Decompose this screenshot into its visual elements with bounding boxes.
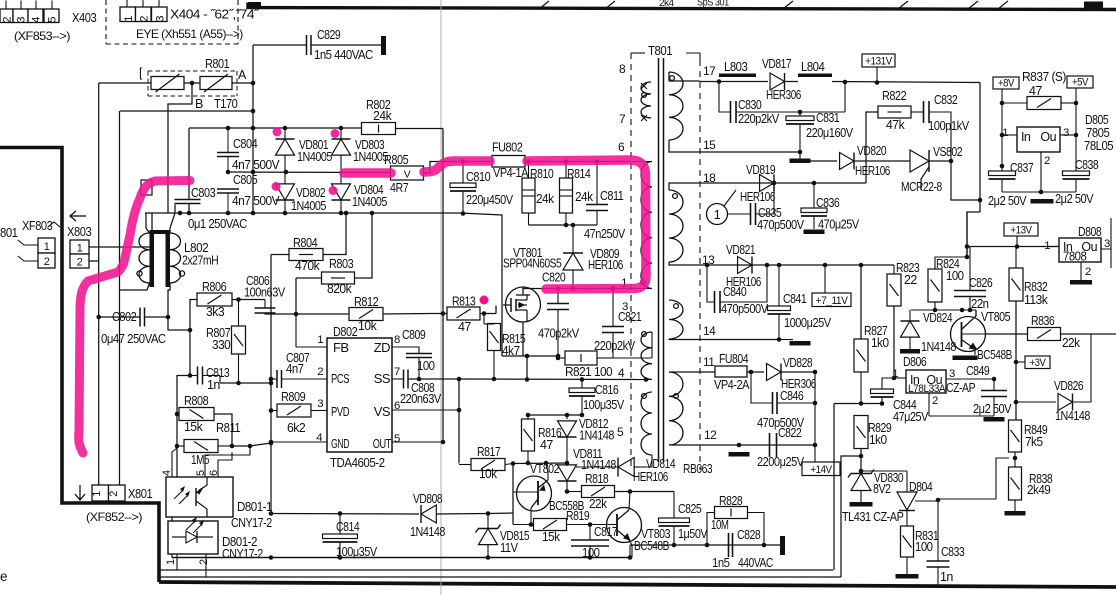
- svg-text:2: 2: [77, 257, 83, 269]
- wire y513 row: [271, 513, 419, 516]
- svg-text:220p2kV: 220p2kV: [738, 112, 780, 126]
- svg-text:6: 6: [618, 140, 625, 154]
- wire opto emitter to bottom rail: [171, 517, 173, 558]
- svg-text:+8V: +8V: [998, 78, 1015, 90]
- svg-text:C832: C832: [934, 93, 958, 107]
- svg-text:1: 1: [714, 208, 721, 222]
- wire emitter rail y463: [513, 462, 567, 465]
- wire bus2 y128: [189, 127, 362, 129]
- svg-text:0μ1 250VAC: 0μ1 250VAC: [188, 217, 247, 231]
- wire y545 row to terminal: [630, 544, 780, 546]
- svg-text:FU804: FU804: [719, 352, 749, 366]
- svg-text:1: 1: [91, 491, 103, 497]
- svg-text:1N4148: 1N4148: [410, 525, 445, 539]
- svg-text:FB: FB: [333, 340, 349, 355]
- svg-text:C841: C841: [783, 292, 807, 306]
- highlighter stroke left input path: [79, 181, 190, 454]
- wire x253 bus1 to bus3: [252, 111, 254, 213]
- svg-text:100: 100: [582, 546, 600, 560]
- terminal bar right of C828: [780, 536, 785, 555]
- diode VD803: [340, 128, 342, 139]
- choke L802 core: [150, 230, 155, 287]
- wire bus1 left corner down to X803 rail: [119, 111, 121, 485]
- svg-text:X404 - ˝62˝,˝74˝: X404 - ˝62˝,˝74˝: [170, 8, 259, 22]
- pink dot R813: [480, 296, 489, 305]
- svg-text:22n: 22n: [971, 297, 989, 311]
- svg-text:470p500V: 470p500V: [757, 218, 805, 232]
- mosfet VT801: [506, 287, 541, 322]
- svg-text:TDA4605-2: TDA4605-2: [330, 455, 385, 470]
- svg-text:A: A: [238, 68, 247, 82]
- diode VD820: [810, 160, 837, 162]
- secondary winding 18-13: [669, 190, 683, 262]
- svg-text:1: 1: [165, 559, 177, 565]
- svg-text:SPP04N60S5: SPP04N60S5: [503, 257, 562, 271]
- svg-text:B: B: [195, 97, 203, 111]
- wire VT802 collector down: [530, 508, 532, 525]
- svg-text:2: 2: [198, 559, 210, 565]
- svg-text:15: 15: [703, 138, 716, 152]
- wire choke left bottom to rail: [120, 283, 150, 290]
- primary winding 8-7: [641, 82, 651, 118]
- capacitor C831: [799, 112, 801, 116]
- wire node A down to bus1: [252, 83, 254, 111]
- svg-text:1N4148: 1N4148: [581, 458, 616, 472]
- svg-text:22k: 22k: [589, 497, 608, 511]
- svg-text:BC548B: BC548B: [977, 348, 1012, 362]
- svg-text:TL431 CZ-AP: TL431 CZ-AP: [842, 510, 904, 524]
- box +13V: [1004, 223, 1038, 236]
- wire regulation node row: [834, 403, 882, 405]
- wire jog to R824 column: [967, 212, 980, 257]
- diode VD819: [760, 175, 774, 192]
- svg-text:7805: 7805: [1086, 126, 1110, 140]
- resistor R849: [1009, 420, 1022, 452]
- svg-text:801: 801: [0, 226, 18, 240]
- svg-text:BC548B: BC548B: [634, 539, 669, 553]
- wire VS pin6: [392, 409, 459, 411]
- svg-text:+7_11V: +7_11V: [816, 295, 849, 307]
- svg-text:8: 8: [619, 62, 626, 76]
- svg-text:HER106: HER106: [740, 190, 775, 204]
- wire PVD pin3: [311, 410, 327, 412]
- svg-text:Ou: Ou: [1040, 130, 1056, 144]
- svg-text:L804: L804: [801, 60, 825, 74]
- ground R831: [896, 574, 919, 579]
- wire +3V node to VD826: [1016, 401, 1056, 403]
- svg-text:CNY17-2: CNY17-2: [222, 547, 263, 561]
- svg-text:R811: R811: [216, 420, 240, 435]
- svg-text:VP4-2A: VP4-2A: [714, 378, 750, 392]
- wire left rail x177 down: [177, 376, 190, 479]
- svg-text:C804: C804: [233, 136, 257, 151]
- wire VT803 collector up: [629, 492, 630, 511]
- svg-text:C816: C816: [595, 383, 619, 397]
- svg-text:1μ50V: 1μ50V: [678, 527, 708, 541]
- wire bus1 AC line y111: [120, 110, 253, 112]
- box +5V: [1067, 76, 1093, 88]
- svg-text:L78L33A: L78L33A: [908, 383, 946, 395]
- svg-text:EYE (Xh551 (A55)-->): EYE (Xh551 (A55)-->): [136, 27, 243, 41]
- svg-text:+5V: +5V: [1072, 77, 1089, 89]
- wire L78L33 in: [894, 377, 906, 379]
- ground D808: [1070, 280, 1092, 285]
- wire source down to y356: [522, 322, 524, 356]
- svg-text:15k: 15k: [184, 419, 203, 434]
- ground VT805: [974, 349, 976, 355]
- top border line: [248, 3, 1116, 10]
- wire left rail down to X801 pin1: [98, 83, 100, 485]
- svg-text:VD817: VD817: [762, 57, 792, 71]
- svg-text:100: 100: [417, 359, 435, 373]
- regulator D806 pin2: [928, 393, 930, 416]
- svg-text:VD821: VD821: [726, 243, 756, 257]
- svg-text:220n63V: 220n63V: [400, 392, 442, 406]
- svg-text:C836: C836: [816, 196, 840, 210]
- svg-text:C820: C820: [542, 271, 566, 285]
- svg-text:2: 2: [932, 395, 938, 407]
- box +14V: [802, 462, 840, 476]
- svg-text:C817: C817: [594, 525, 618, 539]
- wire VT805 base to R836: [962, 333, 987, 335]
- primary winding 6-1: [631, 161, 652, 163]
- wire opto pin1 down to rail570: [176, 554, 178, 570]
- regulator D805 pin2: [1040, 152, 1042, 192]
- svg-text:100: 100: [946, 269, 964, 283]
- svg-text:100n63V: 100n63V: [244, 286, 286, 300]
- svg-text:4: 4: [31, 17, 43, 23]
- wire C829 row: [253, 44, 306, 46]
- svg-text:(XF852-->): (XF852-->): [86, 510, 142, 524]
- svg-text:3: 3: [1063, 127, 1069, 139]
- winding 3-4: [631, 357, 652, 359]
- ground pin12: [729, 452, 750, 457]
- svg-text:2μ2 50V: 2μ2 50V: [1055, 192, 1094, 206]
- resistor R838: [1009, 467, 1022, 500]
- svg-text:2200μ25V: 2200μ25V: [757, 455, 805, 469]
- bottom rail y577: [160, 576, 841, 578]
- svg-text:4: 4: [161, 470, 173, 476]
- secondary winding 17-15: [669, 72, 683, 140]
- svg-text:8V2: 8V2: [873, 482, 891, 496]
- svg-text:100: 100: [915, 540, 933, 554]
- svg-text:3: 3: [155, 16, 167, 22]
- svg-text:HER306: HER306: [766, 88, 801, 102]
- junction dots bus3: [178, 211, 183, 216]
- wire choke left top to bus3: [146, 213, 150, 233]
- svg-text:470p500V: 470p500V: [721, 302, 769, 316]
- box +131V: [862, 54, 895, 67]
- svg-text:VT802: VT802: [530, 462, 560, 476]
- ground VD830: [850, 502, 873, 507]
- wire +131V drop x980: [979, 83, 981, 213]
- capacitor C805: [217, 188, 239, 190]
- wire choke right top to bus3: [170, 205, 175, 234]
- wire pin18 row: [669, 183, 700, 190]
- transformer dashed boundary left: [630, 53, 632, 470]
- wire R822 left down to pin18 row: [866, 112, 878, 183]
- regulator D805 7805: [1017, 127, 1060, 152]
- svg-text:+13V: +13V: [1010, 225, 1032, 237]
- diode VD804: [340, 173, 342, 185]
- svg-text:HER106: HER106: [633, 470, 668, 484]
- wire +13V row: [967, 246, 1062, 248]
- svg-text:e: e: [0, 569, 7, 584]
- svg-text:4k7: 4k7: [502, 344, 520, 358]
- svg-text:R804: R804: [293, 235, 317, 250]
- wire R804 right up to bus3: [323, 213, 346, 255]
- wire +5V rail: [1075, 88, 1077, 171]
- svg-text:VD808: VD808: [413, 492, 443, 506]
- svg-text:VD814: VD814: [646, 457, 676, 471]
- capacitor C822: [769, 433, 771, 457]
- wire D808 out: [1101, 218, 1111, 249]
- connector X404: [120, 7, 136, 22]
- svg-text:C831: C831: [816, 111, 840, 125]
- svg-text:470p2kV: 470p2kV: [538, 327, 580, 341]
- svg-text:R836: R836: [1031, 314, 1055, 328]
- svg-text:D801-1: D801-1: [237, 500, 272, 514]
- capacitor C829: [306, 35, 308, 55]
- svg-text:470μ25V: 470μ25V: [818, 218, 860, 232]
- svg-text:PVD: PVD: [331, 404, 349, 419]
- box +7_11V: [812, 293, 851, 307]
- svg-text:3: 3: [16, 17, 28, 23]
- resistor R831: [901, 526, 914, 557]
- wire choke right bottom to C802 right: [168, 283, 170, 317]
- ground pin14: [779, 339, 793, 341]
- connector X803: [70, 240, 89, 254]
- connector X403: [0, 9, 13, 23]
- wire R806 right: [232, 299, 265, 301]
- svg-text:C805: C805: [233, 172, 257, 187]
- wire bus3 extension to source column: [460, 213, 502, 356]
- terminal bar right of C829: [381, 36, 386, 55]
- svg-text:C840: C840: [723, 285, 747, 299]
- wire R804 left to rail x271: [271, 254, 289, 256]
- posistor R801 dashed outline: [147, 71, 149, 96]
- connector X801: [92, 485, 109, 501]
- wire pin14 to ground: [669, 338, 700, 341]
- secondary winding 14 area: [669, 300, 683, 339]
- svg-text:100p1kV: 100p1kV: [928, 119, 970, 133]
- wire node A up to C829: [252, 45, 254, 83]
- wire B tap down to bus3: [168, 83, 192, 213]
- svg-text:3: 3: [317, 398, 323, 410]
- svg-text:4n7 500V: 4n7 500V: [232, 158, 280, 172]
- svg-text:10k: 10k: [479, 467, 498, 481]
- svg-text:X803: X803: [67, 224, 91, 239]
- wire x459 SS to VS to R817: [458, 379, 460, 464]
- diode VD814: [618, 458, 634, 477]
- wire pin12 row: [669, 444, 685, 446]
- svg-text:2μ2 50V: 2μ2 50V: [973, 402, 1012, 416]
- wire R806 left down: [190, 300, 197, 376]
- svg-text:V: V: [404, 169, 411, 180]
- svg-text:VD820: VD820: [857, 144, 887, 158]
- capacitor C821: [612, 289, 614, 327]
- transformer core: [658, 58, 660, 462]
- ground C836: [804, 230, 825, 235]
- svg-text:R806: R806: [202, 279, 226, 294]
- capacitor C849: [993, 379, 995, 390]
- svg-text:2: 2: [1044, 155, 1050, 167]
- box +3V: [1025, 356, 1050, 369]
- svg-text:47n250V: 47n250V: [584, 227, 626, 241]
- svg-text:7808: 7808: [1063, 250, 1087, 264]
- transformer dashed boundary right: [699, 60, 701, 470]
- diode VD828: [767, 364, 781, 381]
- svg-text:1N4148: 1N4148: [921, 340, 956, 354]
- svg-text:1: 1: [123, 16, 135, 22]
- optocoupler D801-2: [168, 521, 218, 554]
- svg-text:5: 5: [394, 433, 400, 445]
- svg-text:VT805: VT805: [981, 310, 1011, 324]
- wire opto pin4 up: [172, 448, 177, 477]
- wire opto pin2 down to rail577: [205, 554, 207, 577]
- svg-text:R812: R812: [354, 294, 378, 309]
- wire left gnd rail to bottom: [270, 379, 272, 514]
- wire snubber bottom bus y225: [529, 224, 598, 226]
- wire R802 down to R812 R813 node: [442, 129, 444, 314]
- svg-text:78L05: 78L05: [1084, 139, 1114, 153]
- junction dots bus2: [226, 126, 231, 131]
- capacitor C840: [707, 265, 714, 302]
- wire D804 ref: [915, 458, 1009, 501]
- svg-text:R819: R819: [566, 509, 590, 523]
- wire y383 to gnd rail: [220, 382, 271, 384]
- svg-text:CZ-AP: CZ-AP: [946, 381, 975, 395]
- resistor R832: [1009, 268, 1023, 301]
- svg-text:2: 2: [317, 366, 323, 378]
- svg-text:C826: C826: [969, 276, 993, 290]
- IC D802 TDA4605-2: [327, 338, 392, 452]
- svg-text:+3V: +3V: [1030, 357, 1047, 369]
- ground 7805: [1031, 199, 1054, 204]
- transistor VT805: [951, 317, 986, 352]
- capacitor C808: [403, 370, 405, 389]
- svg-text:1n: 1n: [940, 570, 953, 584]
- wire SS pin7 and C808: [392, 378, 403, 380]
- optocoupler D801-1: [166, 477, 233, 517]
- wire opto pin6 up: [218, 452, 232, 477]
- zener VD830: [848, 470, 874, 478]
- svg-text:XF803: XF803: [22, 218, 53, 233]
- svg-text:10M: 10M: [711, 518, 729, 532]
- svg-text:+131V: +131V: [865, 56, 892, 68]
- svg-text:4n7: 4n7: [286, 362, 304, 376]
- svg-text:R837 (S): R837 (S): [1022, 70, 1066, 84]
- svg-text:C846: C846: [780, 389, 804, 403]
- wire VD808 to VD815 to R819 row: [488, 512, 513, 515]
- wire pin17 rail +131V: [669, 72, 700, 81]
- small box on highlighted path: [141, 180, 152, 195]
- capacitor C835: [727, 213, 750, 215]
- thick chassis border bottom: [159, 582, 1116, 587]
- svg-text:C849: C849: [966, 364, 990, 378]
- svg-text:1: 1: [1002, 127, 1008, 139]
- resistor R837: [1027, 97, 1061, 110]
- wire X803 pin2 to left rail: [89, 260, 99, 262]
- svg-text:7: 7: [394, 366, 400, 378]
- svg-text:C822: C822: [778, 426, 802, 440]
- svg-text:C828: C828: [737, 528, 761, 542]
- wire VS802 cathode to +131V rail: [929, 161, 980, 200]
- svg-text:24k: 24k: [536, 192, 555, 206]
- svg-text:11V: 11V: [500, 541, 519, 555]
- svg-text:D808: D808: [1078, 225, 1102, 239]
- svg-text:R832: R832: [1024, 280, 1048, 294]
- svg-text:2μ2 50V: 2μ2 50V: [988, 194, 1027, 208]
- svg-text:22k: 22k: [1062, 336, 1081, 350]
- svg-text:1N4005: 1N4005: [291, 199, 326, 213]
- svg-text:1n5 440VAC: 1n5 440VAC: [314, 48, 373, 62]
- diode VD802: [284, 172, 286, 184]
- wire R821 to transformer pin3: [613, 357, 631, 359]
- capacitor C833: [937, 501, 939, 561]
- winding 5: [641, 392, 652, 455]
- capacitor C844: [882, 378, 894, 389]
- svg-text:1000μ25V: 1000μ25V: [784, 316, 832, 330]
- svg-text:22: 22: [904, 273, 917, 287]
- transistor VT802: [517, 476, 552, 511]
- svg-text:1N4148: 1N4148: [1055, 409, 1090, 423]
- svg-text:1k0: 1k0: [869, 433, 887, 447]
- svg-text:1: 1: [77, 243, 83, 255]
- svg-text:R803: R803: [329, 256, 353, 271]
- wire drain node y288: [523, 288, 637, 290]
- svg-text:1M5: 1M5: [191, 452, 209, 467]
- svg-text:3k3: 3k3: [206, 304, 224, 319]
- svg-text:2k4: 2k4: [659, 0, 674, 9]
- wire R821 node row: [558, 357, 565, 359]
- capacitor C836: [813, 183, 815, 208]
- svg-text:R822: R822: [882, 88, 906, 103]
- wire pin13 rail: [669, 262, 700, 265]
- diode VD826: [1058, 394, 1072, 411]
- wire R803 right up to bus3: [355, 213, 373, 278]
- wire R801 left lead to left rail: [99, 82, 151, 84]
- svg-text:C810: C810: [466, 169, 490, 184]
- resistor R821: [565, 351, 597, 365]
- diode VD812: [566, 415, 568, 419]
- wire opto collector node: [232, 445, 250, 447]
- svg-text:CNY17-2: CNY17-2: [231, 516, 272, 530]
- wire R808 right down: [214, 414, 232, 446]
- resistor R815: [488, 324, 501, 351]
- secondary winding 11-12: [669, 372, 683, 445]
- svg-text:330: 330: [212, 337, 230, 352]
- choke L802 right winding: [170, 233, 181, 283]
- wire ZD pin8 to C809: [392, 347, 419, 353]
- svg-text:3: 3: [949, 368, 955, 380]
- svg-text:5: 5: [47, 17, 59, 23]
- svg-text:MCR22-8: MCR22-8: [901, 180, 942, 194]
- capacitor C832: [911, 111, 923, 113]
- svg-text:220p2kV: 220p2kV: [594, 339, 636, 353]
- svg-text:1n: 1n: [207, 378, 220, 392]
- svg-text:12: 12: [704, 428, 717, 442]
- wire L78L33 out to C849: [946, 378, 994, 380]
- svg-text:220μ450V: 220μ450V: [466, 193, 514, 207]
- wire FU802 to transformer pin6: [525, 161, 631, 163]
- wire R824 top feed: [966, 212, 968, 257]
- capacitor C841: [778, 265, 780, 306]
- highlighter stroke bridge to transformer: [344, 160, 646, 289]
- wire C802 right down join R806: [168, 317, 190, 330]
- thick chassis border left: [0, 148, 159, 583]
- svg-text:1N4148: 1N4148: [579, 429, 614, 443]
